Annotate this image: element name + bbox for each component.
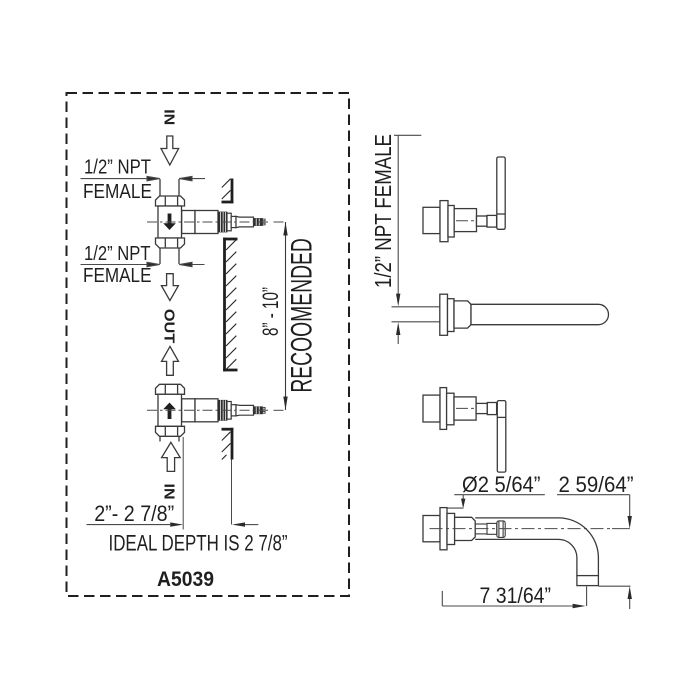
svg-text:1/2” NPT: 1/2” NPT [84, 242, 151, 265]
flow arrow IN down (hollow) [161, 136, 179, 165]
H2 body [454, 397, 476, 420]
cartridge of valve V1 [147, 211, 269, 234]
svg-text:7 31/64”: 7 31/64” [480, 583, 552, 608]
svg-text:2”- 2 7/8”: 2”- 2 7/8” [94, 501, 174, 526]
dashed border box [67, 93, 350, 596]
H2 lever [497, 401, 506, 473]
H2 centerline [456, 407, 476, 409]
spout top view [423, 508, 598, 586]
H1 stem [477, 216, 488, 226]
H2 step [447, 393, 454, 425]
svg-text:1/2” NPT: 1/2” NPT [84, 155, 151, 178]
svg-text:Ø2 5/64”: Ø2 5/64” [462, 472, 541, 497]
wall section middle [223, 238, 237, 372]
pipe outlet top valve [160, 248, 179, 264]
valve V1 body [158, 206, 182, 238]
dimension leader lower pipe [81, 262, 205, 266]
flow arrow IN up (hollow) bottom [162, 442, 181, 471]
spout escutcheon [454, 301, 471, 328]
H1 collar [487, 215, 497, 227]
wall extension line down [231, 460, 233, 525]
svg-text:FEMALE: FEMALE [83, 264, 152, 287]
wall section lower [222, 428, 234, 460]
centerline extension dash V1 [274, 221, 284, 223]
wall hatch upper [222, 179, 231, 199]
H1 centerline [456, 220, 476, 222]
spoutT step [447, 513, 455, 544]
pipe stub below V2 [160, 436, 179, 441]
H2 flange [440, 388, 447, 430]
svg-text:1/2” NPT FEMALE: 1/2” NPT FEMALE [370, 134, 396, 288]
spoutT wall block [423, 516, 440, 542]
valve V2 internal flow arrow (up) [163, 403, 176, 420]
svg-text:A5039: A5039 [157, 568, 214, 591]
svg-text:RECOOMENDED: RECOOMENDED [285, 238, 318, 393]
svg-text:IN: IN [161, 484, 178, 500]
valve V2 bottom: hex nut upper [156, 384, 185, 394]
spoutT flange [440, 508, 447, 550]
spout side view [392, 307, 440, 322]
spout tube (side) [471, 304, 609, 324]
valve V1 hex nut lower [156, 238, 185, 248]
H1 step [448, 206, 454, 238]
spoutT internals [475, 521, 505, 538]
handle H1 (lever up) [423, 157, 505, 242]
H1 lever [497, 157, 505, 229]
supply pipe lines [392, 306, 440, 308]
svg-text:2 59/64”: 2 59/64” [559, 472, 634, 497]
svg-text:IDEAL DEPTH IS 2 7/8”: IDEAL DEPTH IS 2 7/8” [109, 531, 288, 556]
spoutT centerline [430, 528, 613, 530]
svg-text:8” - 10”: 8” - 10” [258, 287, 283, 336]
dimension 2 59/64 vertical [557, 495, 632, 609]
valve V1 internal flow arrow (down) [163, 214, 176, 231]
flow arrow OUT up (hollow) [162, 346, 179, 375]
H1 wall block [423, 207, 440, 233]
valve V1 top: hex nut upper [156, 196, 185, 206]
wire [81, 109, 319, 591]
dimension 2 - 2 7/8 [87, 522, 259, 526]
valve V2 hex nut lower [156, 426, 185, 436]
svg-text:OUT: OUT [161, 309, 177, 344]
extension line valve right edge [182, 437, 184, 530]
svg-text:FEMALE: FEMALE [83, 180, 152, 203]
spoutT outlet band [577, 576, 599, 586]
dimension line NPT female [394, 135, 421, 344]
dimension 8-10 recommended [283, 222, 287, 410]
valve V2 body [158, 394, 182, 426]
H2 collar [487, 403, 496, 415]
H1 flange [440, 201, 448, 242]
leader dia 2 5/64 [447, 495, 545, 509]
spoutT escutcheon [455, 517, 476, 540]
flow arrow OUT down (hollow) [161, 274, 178, 301]
H2 stem [476, 403, 487, 413]
cartridge of valve V2 [147, 399, 269, 422]
dimension 7 31/64 [442, 586, 586, 608]
spout flange [440, 294, 448, 335]
svg-text:IN: IN [161, 109, 178, 125]
wall hatch middle [226, 240, 236, 370]
dimension leader top pipe [81, 176, 206, 180]
centerline extension dash V2 [274, 409, 284, 411]
spoutT tube with bend [475, 518, 598, 576]
handle H2 (lever down) [423, 388, 506, 473]
H2 wall block [423, 395, 440, 422]
H1 body [454, 209, 476, 232]
pipe inlet top valve [160, 179, 179, 196]
wall section upper [222, 179, 234, 204]
wall hatch lower [222, 432, 231, 460]
spout step [448, 299, 455, 332]
